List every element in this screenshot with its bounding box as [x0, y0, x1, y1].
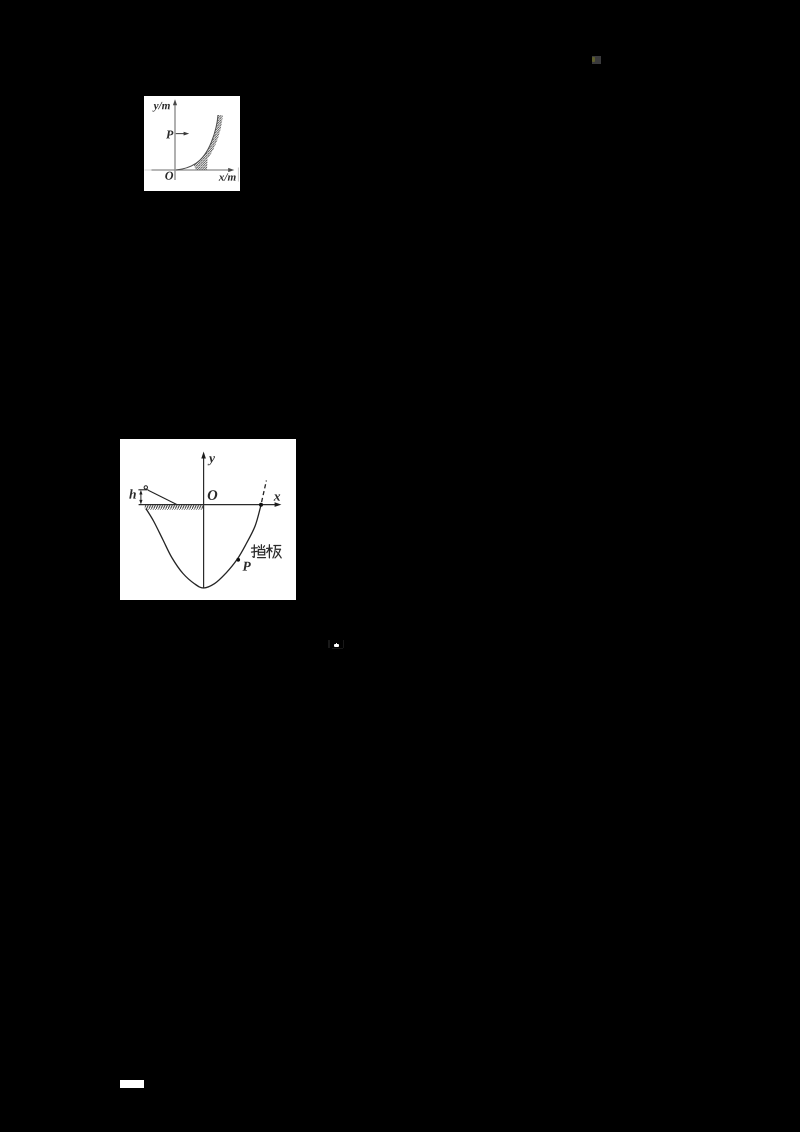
label 挡板 char 板 [267, 545, 282, 558]
origin label O [165, 171, 173, 179]
ball on platform [144, 486, 147, 489]
axis label y/m [152, 102, 169, 112]
axis label y [208, 456, 215, 465]
h double arrow [139, 490, 142, 505]
parabola (valley track) [146, 506, 261, 589]
dashed continuation (baffle) [262, 481, 267, 503]
bottom-left white rectangle [120, 1080, 144, 1088]
point label P [166, 130, 173, 138]
platform tick [138, 489, 148, 491]
x-axis [152, 168, 235, 172]
tiny white blob mid page [336, 643, 337, 645]
x-axis [139, 503, 282, 508]
axis label x [274, 495, 281, 501]
ground hatching [145, 505, 204, 510]
curve (exponential wall face) [176, 115, 218, 170]
hatched band (wall) [194, 115, 223, 170]
axis label x/m [219, 173, 236, 180]
tiny dark tick marks mid page [328, 640, 330, 648]
olive blob inside gray square [592, 57, 595, 62]
label P [242, 562, 250, 571]
figure 1 white panel [144, 96, 240, 192]
origin label O [208, 490, 218, 500]
dot where track meets x-axis [259, 503, 263, 507]
point P dot [236, 558, 240, 562]
label 挡板 (baffle) drawn strokes: char 挡 [252, 545, 266, 558]
figure 2 white panel [120, 439, 296, 600]
small gray square marker top right [592, 56, 601, 65]
incline from platform to ground [148, 490, 176, 504]
label h [129, 490, 136, 499]
y-axis [173, 99, 177, 180]
y-axis [201, 452, 206, 589]
scan artifact: faint vertical line near right edge [237, 167, 239, 181]
scan artifact: faint left axis continuation [145, 169, 152, 171]
arrow from P [176, 131, 189, 135]
